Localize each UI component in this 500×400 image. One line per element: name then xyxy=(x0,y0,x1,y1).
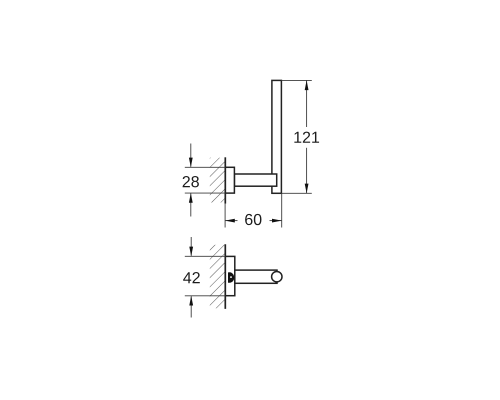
screw head detail xyxy=(228,272,234,283)
wall mounting plate (bottom view) xyxy=(225,256,234,295)
dimension 28 upper arrow xyxy=(189,144,193,168)
horizontal arm of holder xyxy=(234,174,276,186)
dimension 60 line with arrows xyxy=(225,219,282,223)
wall face line (top view) xyxy=(224,157,226,203)
wall hatch (top view) xyxy=(210,158,226,203)
wall mounting plate (top view) xyxy=(225,167,234,193)
wall hatch (bottom view) xyxy=(210,245,226,308)
dimension label 121 xyxy=(294,132,319,143)
dimension 60 extension line left xyxy=(224,204,226,228)
wall face line (bottom view) xyxy=(224,244,226,309)
rod end cap circle xyxy=(272,272,282,282)
dimension label 42 xyxy=(183,272,200,283)
dimension 121 extension line top xyxy=(281,79,311,81)
dimension 42 upper arrow xyxy=(189,237,193,256)
dimension 60 extension line right xyxy=(281,193,283,227)
dimension 42 extension line top xyxy=(185,255,226,257)
dimension 28 extension line top xyxy=(185,166,226,168)
holder rod (bottom view) xyxy=(235,270,277,283)
vertical bar of holder xyxy=(272,80,282,193)
dimension 28 extension line bottom xyxy=(185,192,226,194)
dimension 121 extension line bottom xyxy=(281,192,311,194)
dimension 42 lower arrow xyxy=(189,296,193,318)
dimension 42 extension line bottom xyxy=(185,295,226,297)
dimension 28 lower arrow xyxy=(189,193,193,216)
dimension label 60 xyxy=(245,214,261,225)
dimension label 28 xyxy=(183,176,199,187)
dimension 121 line with arrows xyxy=(305,80,309,193)
